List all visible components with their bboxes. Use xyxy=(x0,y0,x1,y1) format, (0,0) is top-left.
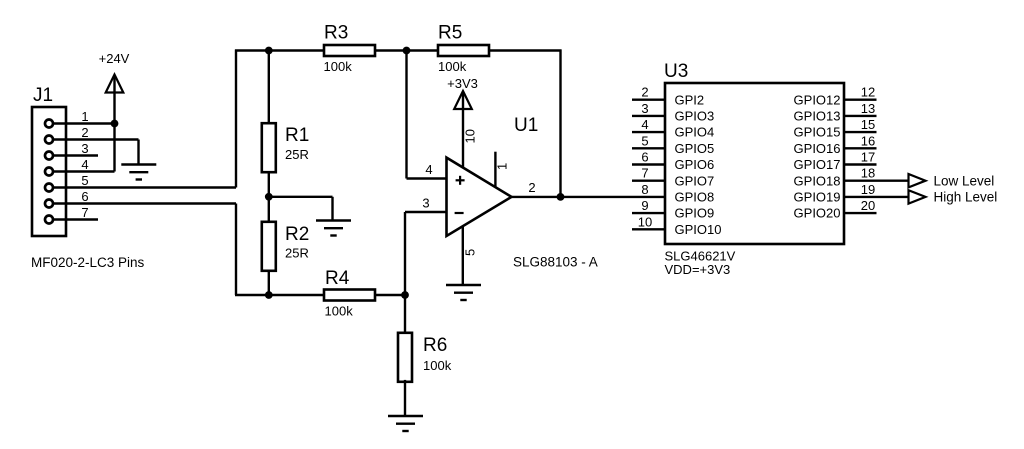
svg-text:8: 8 xyxy=(641,182,648,197)
svg-text:100k: 100k xyxy=(324,59,353,74)
svg-text:GPIO13: GPIO13 xyxy=(794,109,841,124)
wire U3 pin 17 stub xyxy=(844,163,877,165)
svg-text:GPIO10: GPIO10 xyxy=(675,222,722,237)
wire -input horizontal xyxy=(405,211,447,213)
wire U3 pin 19 stub xyxy=(844,196,909,198)
junction +24V / J1 pin 1 xyxy=(111,120,119,128)
svg-text:100k: 100k xyxy=(325,304,354,319)
svg-text:U1: U1 xyxy=(514,115,538,136)
junction R1/R2/ground xyxy=(265,193,273,201)
svg-text:10: 10 xyxy=(463,129,478,143)
svg-text:5: 5 xyxy=(641,133,648,148)
svg-text:4: 4 xyxy=(425,162,432,177)
svg-text:4: 4 xyxy=(641,117,648,132)
svg-text:20: 20 xyxy=(861,198,875,213)
svg-text:GPIO9: GPIO9 xyxy=(675,206,715,221)
connector J1 pin 6 circle xyxy=(45,200,53,208)
wire U3 pin 2 stub xyxy=(632,98,665,100)
wire +input horizontal xyxy=(407,177,447,179)
wire J1 pin 6 xyxy=(54,202,236,204)
svg-text:GPIO18: GPIO18 xyxy=(794,173,841,188)
power symbol +24V xyxy=(106,75,124,93)
svg-text:+3V3: +3V3 xyxy=(447,76,478,91)
connector J1 pin 1 circle xyxy=(45,120,53,128)
ground (J1 pin 2) xyxy=(121,165,156,180)
wire junction down to R6 xyxy=(404,295,406,335)
wire U3 pin 10 stub xyxy=(632,228,665,230)
svg-text:VDD=+3V3: VDD=+3V3 xyxy=(665,262,731,277)
connector J1 pin 3 circle xyxy=(45,152,53,160)
svg-text:GPIO19: GPIO19 xyxy=(794,190,841,205)
svg-text:12: 12 xyxy=(861,85,875,100)
svg-text:R1: R1 xyxy=(285,125,309,146)
connector J1 body xyxy=(32,107,66,236)
wire J1 pin 5 up to top rail xyxy=(235,50,237,188)
connector J1 pin 5 circle xyxy=(45,184,53,192)
svg-text:6: 6 xyxy=(81,189,88,204)
svg-text:R3: R3 xyxy=(324,23,348,44)
wire J1 pin 5 xyxy=(54,186,236,188)
wire U3 pin 20 stub xyxy=(844,212,877,214)
wire J1 pin 1 xyxy=(54,122,115,124)
svg-text:7: 7 xyxy=(641,166,648,181)
svg-text:100k: 100k xyxy=(438,59,467,74)
wire top rail to R1 xyxy=(268,51,270,124)
wire U1 pin 5 to ground xyxy=(462,226,464,285)
wire J1 pin 4 xyxy=(54,170,115,172)
wire -input vertical xyxy=(404,212,406,295)
wire +input vertical xyxy=(405,51,407,179)
svg-text:16: 16 xyxy=(861,133,875,148)
junction R4 / R6 / op-amp -input xyxy=(401,291,409,299)
svg-text:R4: R4 xyxy=(325,268,350,289)
wire U3 pin 15 stub xyxy=(844,131,877,133)
svg-text:17: 17 xyxy=(861,150,875,165)
wire R2 bottom to rail xyxy=(268,270,270,295)
svg-text:3: 3 xyxy=(641,101,648,116)
arrow High Level (pin 19) xyxy=(909,190,926,203)
svg-text:10: 10 xyxy=(638,214,652,229)
op-amp + symbol xyxy=(456,176,465,185)
svg-text:GPIO12: GPIO12 xyxy=(794,92,841,107)
resistor R6 xyxy=(398,333,412,382)
svg-text:R2: R2 xyxy=(285,224,309,245)
svg-text:MF020-2-LC3 Pins: MF020-2-LC3 Pins xyxy=(31,255,145,270)
wire top rail middle segment xyxy=(375,49,438,51)
svg-text:5: 5 xyxy=(463,249,478,256)
junction top rail / R1 top xyxy=(265,47,273,55)
svg-text:1: 1 xyxy=(81,109,88,124)
ground (U1 pin 5) xyxy=(446,285,481,300)
wire J1 pin 2 down to ground xyxy=(137,140,139,165)
svg-text:GPIO7: GPIO7 xyxy=(675,173,715,188)
wire U3 pin 5 stub xyxy=(632,147,665,149)
wire R6 bottom to ground xyxy=(404,380,406,416)
svg-text:High Level: High Level xyxy=(934,190,998,205)
svg-text:2: 2 xyxy=(641,85,648,100)
svg-text:GPI2: GPI2 xyxy=(675,92,705,107)
svg-text:GPIO6: GPIO6 xyxy=(675,157,715,172)
wire U3 pin 18 stub xyxy=(844,179,909,181)
svg-text:7: 7 xyxy=(81,205,88,220)
resistor R4 xyxy=(324,290,375,301)
svg-text:25R: 25R xyxy=(285,147,309,162)
svg-text:+24V: +24V xyxy=(99,51,130,66)
connector J1 pin 7 circle xyxy=(45,216,53,224)
svg-text:3: 3 xyxy=(422,196,429,211)
wire U3 pin 3 stub xyxy=(632,115,665,117)
svg-text:4: 4 xyxy=(81,157,88,172)
ground (R1/R2 midpoint) xyxy=(316,221,351,236)
svg-text:6: 6 xyxy=(641,150,648,165)
svg-text:GPIO8: GPIO8 xyxy=(675,190,715,205)
wire +24V vertical to pins 1 and 4 xyxy=(113,76,115,172)
wire U3 pin 7 stub xyxy=(632,179,665,181)
svg-text:13: 13 xyxy=(861,101,875,116)
svg-text:18: 18 xyxy=(861,166,875,181)
svg-text:J1: J1 xyxy=(33,85,53,106)
svg-text:SLG88103 - A: SLG88103 - A xyxy=(513,255,598,270)
wire feedback down to output xyxy=(559,50,561,197)
wire U3 pin 6 stub xyxy=(632,163,665,165)
svg-text:100k: 100k xyxy=(423,358,452,373)
wire bottom rail left xyxy=(235,294,324,296)
resistor R2 xyxy=(262,222,276,271)
junction output / feedback xyxy=(557,193,565,201)
svg-text:9: 9 xyxy=(641,198,648,213)
svg-text:GPIO16: GPIO16 xyxy=(794,141,841,156)
wire R1 bottom to R2 top xyxy=(268,172,270,223)
op-amp U1 xyxy=(447,158,512,236)
ground (R6) xyxy=(388,416,423,431)
wire down to mid ground xyxy=(331,197,333,221)
svg-text:U3: U3 xyxy=(664,61,688,82)
svg-text:R6: R6 xyxy=(423,335,447,356)
svg-text:GPIO15: GPIO15 xyxy=(794,125,841,140)
wire R4 to junction xyxy=(375,294,405,296)
power symbol +3V3 xyxy=(454,91,472,109)
wire U3 pin 4 stub xyxy=(632,131,665,133)
wire top rail right segment xyxy=(489,49,562,51)
svg-text:19: 19 xyxy=(861,182,875,197)
connector J1 pin 2 circle xyxy=(45,136,53,144)
arrow Low Level (pin 18) xyxy=(909,174,926,187)
wire U3 pin 12 stub xyxy=(844,98,877,100)
junction R2 bottom / bottom rail xyxy=(265,291,273,299)
wire J1 pin 6 down to R4 rail xyxy=(235,204,237,296)
svg-text:Low Level: Low Level xyxy=(934,173,995,188)
svg-text:GPIO4: GPIO4 xyxy=(675,125,715,140)
wire J1 pin 7 xyxy=(54,218,98,220)
wire U3 pin 9 stub xyxy=(632,212,665,214)
wire U1 output to U3 pin 8 xyxy=(512,196,666,198)
svg-text:3: 3 xyxy=(81,141,88,156)
svg-text:GPIO20: GPIO20 xyxy=(794,206,841,221)
svg-text:GPIO3: GPIO3 xyxy=(675,109,715,124)
resistor R1 xyxy=(262,123,276,172)
op-amp - symbol xyxy=(455,212,464,214)
svg-text:1: 1 xyxy=(495,163,510,170)
svg-text:5: 5 xyxy=(81,173,88,188)
resistor R5 xyxy=(438,45,489,56)
connector J1 pin 4 circle xyxy=(45,168,53,176)
wire U3 pin 13 stub xyxy=(844,115,877,117)
resistor R3 xyxy=(324,45,375,56)
wire U1 pin 1 stub xyxy=(494,152,496,187)
svg-text:2: 2 xyxy=(528,180,535,195)
wire U3 pin 16 stub xyxy=(844,147,877,149)
junction top rail / op-amp +input xyxy=(403,47,411,55)
svg-text:GPIO17: GPIO17 xyxy=(794,157,841,172)
svg-text:2: 2 xyxy=(81,125,88,140)
wire junction to mid ground xyxy=(269,196,333,198)
IC U3 body xyxy=(665,83,844,244)
svg-text:GPIO5: GPIO5 xyxy=(675,141,715,156)
svg-text:15: 15 xyxy=(861,117,875,132)
svg-text:R5: R5 xyxy=(438,23,462,44)
wire J1 pin 3 xyxy=(54,154,98,156)
wire top rail left segment xyxy=(235,49,324,51)
wire J1 pin 2 xyxy=(54,138,139,140)
wire +3V3 to U1 pin 10 xyxy=(462,93,464,168)
svg-text:25R: 25R xyxy=(285,246,309,261)
